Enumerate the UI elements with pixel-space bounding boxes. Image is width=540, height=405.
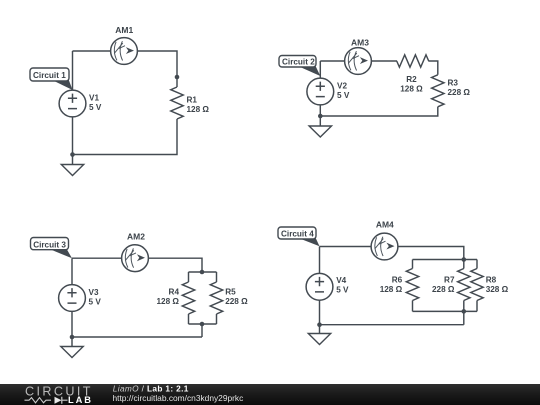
svg-text:228 Ω: 228 Ω bbox=[225, 297, 248, 306]
svg-text:Circuit 3: Circuit 3 bbox=[33, 240, 66, 249]
svg-text:128 Ω: 128 Ω bbox=[187, 105, 210, 114]
svg-text:R3: R3 bbox=[448, 79, 459, 88]
svg-text:Circuit 2: Circuit 2 bbox=[282, 58, 315, 67]
svg-text:Circuit 4: Circuit 4 bbox=[281, 230, 314, 239]
svg-text:LiamO / Lab 1: 2.1: LiamO / Lab 1: 2.1 bbox=[113, 384, 189, 394]
svg-text:5 V: 5 V bbox=[337, 91, 350, 100]
svg-text:5 V: 5 V bbox=[336, 286, 349, 295]
svg-text:V4: V4 bbox=[336, 276, 346, 285]
svg-text:AM4: AM4 bbox=[376, 220, 394, 230]
svg-text:Circuit 1: Circuit 1 bbox=[33, 71, 66, 80]
svg-text:128 Ω: 128 Ω bbox=[157, 297, 180, 306]
svg-text:128 Ω: 128 Ω bbox=[380, 285, 403, 294]
svg-text:R7: R7 bbox=[444, 276, 455, 285]
svg-text:V2: V2 bbox=[337, 81, 347, 90]
svg-text:R6: R6 bbox=[392, 276, 403, 285]
svg-text:228 Ω: 228 Ω bbox=[448, 88, 471, 97]
svg-text:R1: R1 bbox=[187, 96, 198, 105]
svg-text:LAB: LAB bbox=[68, 395, 93, 405]
svg-text:V1: V1 bbox=[89, 93, 99, 102]
svg-text:R4: R4 bbox=[169, 287, 180, 296]
svg-text:AM1: AM1 bbox=[115, 25, 133, 35]
svg-text:AM2: AM2 bbox=[127, 231, 145, 241]
svg-text:http://circuitlab.com/cn3kdny2: http://circuitlab.com/cn3kdny29prkc bbox=[113, 393, 244, 403]
svg-text:R2: R2 bbox=[406, 75, 417, 84]
svg-text:AM3: AM3 bbox=[351, 38, 369, 48]
svg-text:V3: V3 bbox=[89, 288, 99, 297]
svg-text:228 Ω: 228 Ω bbox=[432, 285, 455, 294]
svg-text:5 V: 5 V bbox=[89, 298, 102, 307]
svg-text:5 V: 5 V bbox=[89, 103, 102, 112]
svg-text:R5: R5 bbox=[225, 288, 236, 297]
svg-text:128 Ω: 128 Ω bbox=[400, 84, 423, 93]
svg-text:R8: R8 bbox=[486, 276, 497, 285]
svg-text:328 Ω: 328 Ω bbox=[486, 285, 509, 294]
